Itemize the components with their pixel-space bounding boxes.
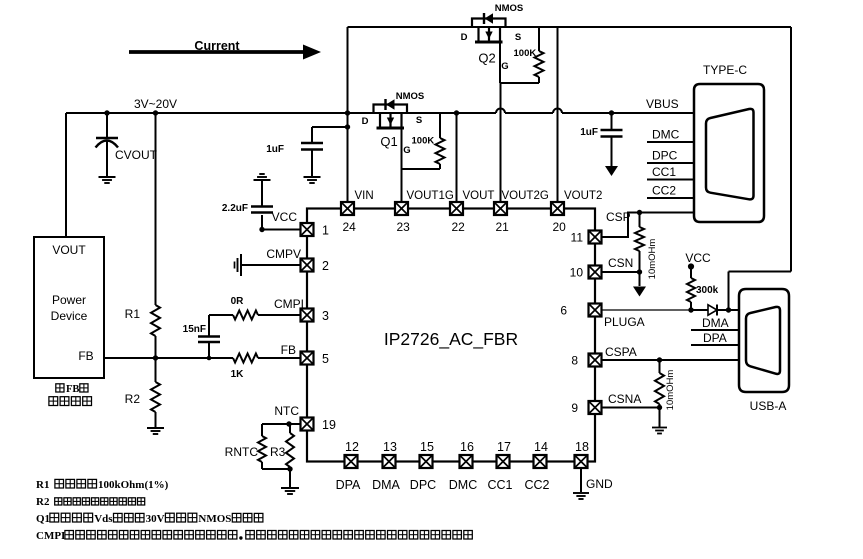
svg-text:DPC: DPC [652,149,678,163]
svg-text:VOUT: VOUT [52,243,86,257]
svg-text:G: G [501,61,508,72]
svg-text:9: 9 [571,401,578,415]
svg-text:100kOhm(1%): 100kOhm(1%) [98,479,169,491]
svg-text:G: G [403,145,410,156]
svg-text:VOUT1G: VOUT1G [407,190,454,202]
svg-text:FB: FB [78,349,93,363]
svg-text:DPC: DPC [410,478,436,492]
svg-text:1K: 1K [231,369,245,380]
svg-text:2: 2 [322,259,329,273]
svg-text:10mOHm: 10mOHm [647,239,658,280]
svg-text:1uF: 1uF [266,144,284,155]
svg-text:14: 14 [534,440,548,454]
svg-text:5: 5 [322,352,329,366]
svg-text:FB: FB [281,343,296,357]
svg-text:23: 23 [397,220,411,234]
svg-text:VOUT2: VOUT2 [564,190,602,202]
svg-text:R1: R1 [36,479,49,491]
svg-text:NTC: NTC [274,404,299,418]
svg-text:10mOHm: 10mOHm [665,370,676,411]
svg-text:R1: R1 [125,307,141,321]
svg-text:DPA: DPA [703,331,727,345]
svg-text:11: 11 [571,231,584,245]
svg-text:13: 13 [383,440,397,454]
svg-text:DMC: DMC [449,478,477,492]
svg-text:21: 21 [496,220,510,234]
svg-text:R2: R2 [36,496,50,508]
svg-text:20: 20 [553,220,567,234]
svg-text:8: 8 [571,354,578,368]
svg-text:17: 17 [497,440,511,454]
svg-text:Q2: Q2 [478,51,495,66]
svg-text:R2: R2 [125,392,141,406]
svg-text:1uF: 1uF [580,127,598,138]
svg-text:GND: GND [586,477,613,491]
svg-text:NMOS: NMOS [396,91,425,102]
svg-text:2.2uF: 2.2uF [222,203,248,214]
svg-text:R3: R3 [270,445,286,459]
svg-text:Q1: Q1 [36,513,50,525]
svg-text:VCC: VCC [685,251,711,265]
svg-text:VCC: VCC [272,210,298,224]
svg-text:19: 19 [322,418,336,432]
svg-text:DMA: DMA [702,316,729,330]
svg-text:3: 3 [322,309,329,323]
svg-text:0R: 0R [231,296,245,307]
svg-text:15: 15 [420,440,434,454]
svg-text:Q1: Q1 [380,134,397,149]
svg-text:CMPV: CMPV [266,247,301,261]
svg-text:CMPI: CMPI [36,530,65,542]
svg-text:NMOS: NMOS [198,513,231,525]
svg-text:CVOUT: CVOUT [115,148,158,162]
svg-text:D: D [461,32,468,43]
svg-text:IP2726_AC_FBR: IP2726_AC_FBR [384,329,518,350]
svg-text:USB-A: USB-A [750,399,787,413]
svg-text:100K: 100K [514,48,537,59]
svg-text:CC1: CC1 [652,165,676,179]
svg-text:Current: Current [194,39,240,53]
svg-text:DPA: DPA [336,478,361,492]
svg-text:15nF: 15nF [183,324,206,335]
svg-text:CSP: CSP [606,210,631,224]
svg-text:300k: 300k [696,285,719,296]
svg-text:VIN: VIN [355,190,374,202]
svg-text:S: S [515,32,521,43]
svg-text:18: 18 [575,440,589,454]
svg-text:CSPA: CSPA [605,345,637,359]
svg-text:10: 10 [570,266,584,280]
svg-text:100K: 100K [412,136,435,147]
svg-text:CC2: CC2 [524,478,549,492]
svg-text:3V~20V: 3V~20V [134,97,177,111]
svg-text:VOUT2G: VOUT2G [502,190,549,202]
svg-text:PLUGA: PLUGA [604,315,645,329]
svg-text:Power: Power [52,293,86,307]
svg-text:30V: 30V [146,513,165,525]
svg-text:DMC: DMC [652,128,680,142]
svg-text:VBUS: VBUS [646,97,679,111]
svg-text:24: 24 [343,220,357,234]
svg-text:NMOS: NMOS [495,3,524,14]
svg-text:CC1: CC1 [487,478,512,492]
svg-text:22: 22 [452,220,466,234]
svg-text:CSNA: CSNA [608,392,641,406]
svg-text:Vds: Vds [94,513,113,525]
svg-text:FB: FB [66,384,79,395]
svg-text:RNTC: RNTC [225,445,259,459]
svg-text:Device: Device [51,309,88,323]
svg-text:12: 12 [345,440,359,454]
svg-text:VOUT: VOUT [463,190,495,202]
svg-text:DMA: DMA [372,478,400,492]
svg-text:6: 6 [560,304,567,318]
svg-text:16: 16 [460,440,474,454]
svg-text:1: 1 [322,224,329,238]
svg-text:D: D [362,116,369,127]
svg-text:CSN: CSN [608,256,633,270]
svg-text:CMPI: CMPI [274,297,304,311]
svg-text:S: S [416,115,422,126]
svg-text:CC2: CC2 [652,184,676,198]
svg-text:TYPE-C: TYPE-C [703,63,747,77]
